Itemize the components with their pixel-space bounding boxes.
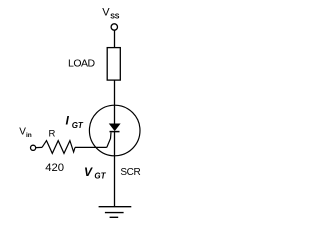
resistor R zigzag — [42, 141, 75, 154]
terminal Vin — [30, 145, 35, 150]
resistor LOAD — [107, 48, 120, 81]
wire load to SCR — [114, 80, 116, 124]
svg-text:in: in — [26, 132, 32, 139]
terminal VSS — [111, 24, 117, 30]
wire cathode down — [114, 132, 116, 207]
SCR cathode bar — [110, 131, 120, 133]
svg-text:420: 420 — [45, 162, 64, 174]
SCR U1 body circle — [89, 105, 140, 156]
SCR anode triangle — [110, 124, 120, 130]
svg-text:GT: GT — [72, 121, 84, 130]
svg-text:SS: SS — [110, 13, 119, 20]
svg-text:LOAD: LOAD — [68, 57, 96, 69]
wire anode top — [114, 30, 116, 47]
svg-text:GT: GT — [94, 172, 106, 181]
gate wire — [107, 132, 111, 147]
wire Vin to resistor — [36, 146, 42, 148]
svg-text:SCR: SCR — [120, 167, 140, 178]
svg-text:V: V — [84, 165, 93, 179]
svg-text:R: R — [49, 129, 56, 140]
ground — [99, 206, 132, 208]
svg-text:V: V — [102, 7, 110, 19]
